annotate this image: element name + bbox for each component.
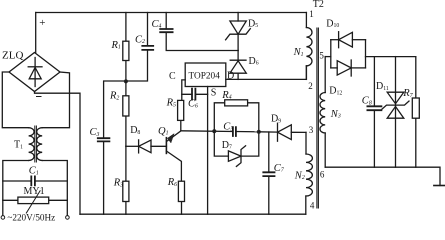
resistor R2 — [123, 82, 129, 147]
transformer T2 core — [317, 28, 319, 208]
diode D6 — [230, 51, 246, 80]
node junction dot R1/R2/C2 — [124, 79, 128, 83]
resistor R7 — [412, 57, 419, 168]
svg-text:C: C — [169, 71, 176, 82]
resistor R3 — [123, 146, 129, 214]
resistor R4 (snubber top) — [214, 100, 258, 132]
resistor R6 — [178, 181, 184, 214]
wire top rail — [36, 12, 307, 14]
wire bridge left vertex to T1 left winding top — [2, 72, 28, 128]
wire diode loop left edge — [330, 40, 332, 68]
svg-text:~220V/50Hz: ~220V/50Hz — [7, 213, 55, 223]
wire T1 right winding bottom to lower-right rail — [42, 161, 67, 216]
wire output rail top — [366, 56, 416, 58]
diode D12 — [331, 60, 366, 76]
wire T1 left winding bottom to lower-left rail — [3, 161, 29, 216]
node A dot — [212, 129, 216, 133]
svg-text:TOP204: TOP204 — [189, 71, 221, 81]
capacitor C3 — [98, 81, 126, 214]
svg-text:5: 5 — [319, 50, 324, 60]
diode D10 — [331, 32, 366, 48]
wire bridge minus output down the middle — [35, 92, 81, 215]
diode D9 — [259, 123, 306, 141]
op-amp / switcher IC U1 TOP204 box — [185, 63, 226, 87]
capacitor C6 — [182, 89, 208, 100]
ground — [434, 185, 445, 187]
wire pin 5 to diode loop — [325, 56, 331, 58]
svg-text:T2: T2 — [313, 0, 324, 10]
diode D11 (bidirectional TVS) — [382, 57, 409, 168]
svg-text:2: 2 — [308, 81, 313, 91]
bridge rectifier inner diode — [28, 58, 42, 87]
wire feedback line Q1 emitter to snubber — [181, 130, 233, 133]
varistor MY1 — [3, 191, 68, 213]
wire D pin to transformer pin 2 — [226, 66, 307, 80]
wire from top rail down to bridge — [35, 13, 37, 53]
terminal left (AC input) — [1, 216, 5, 220]
diode D5 (zener clamp) — [226, 13, 251, 51]
diode D8 — [126, 140, 166, 153]
capacitor C4 — [160, 13, 238, 51]
svg-text:4: 4 — [310, 200, 315, 210]
node B dot — [257, 130, 261, 134]
transformer T2 winding N2 — [306, 132, 313, 214]
resistor R5 — [178, 100, 184, 130]
svg-text:6: 6 — [320, 169, 325, 179]
svg-text:3: 3 — [309, 125, 314, 135]
wire C pin to R5 top — [182, 80, 185, 101]
svg-text:1: 1 — [309, 9, 314, 19]
wire bottom rail secondary — [325, 167, 440, 185]
svg-text:ZLQ: ZLQ — [2, 50, 23, 62]
svg-text:+: + — [39, 17, 45, 29]
transformer T1 left winding — [29, 128, 35, 161]
node minus (bridge output) — [37, 96, 42, 98]
capacitor C1 — [3, 176, 68, 185]
capacitor C8 — [367, 57, 381, 168]
wire diode loop right edge — [365, 40, 367, 68]
transformer T2 winding N1 — [306, 13, 312, 80]
bridge rectifier ZLQ diamond — [9, 53, 60, 92]
capacitor C2 — [126, 13, 153, 82]
transformer T1 core — [35, 126, 37, 162]
capacitor C5 (in line) — [233, 127, 259, 136]
transformer T1 right winding — [37, 128, 43, 161]
transistor Q1 — [166, 131, 181, 181]
wire S pin down to bottom rail — [207, 87, 209, 215]
wire bridge right vertex to T1 right winding top — [42, 72, 69, 128]
svg-text:MY1: MY1 — [24, 186, 45, 197]
terminal right (AC input) — [66, 216, 70, 220]
diode D7 (zener, snubber bottom) — [214, 131, 258, 166]
svg-text:S: S — [211, 88, 217, 99]
capacitor C7 — [263, 132, 274, 214]
wire bottom rail primary — [80, 213, 306, 215]
resistor R1 — [123, 13, 129, 82]
transformer T2 winding N3 — [320, 57, 325, 168]
